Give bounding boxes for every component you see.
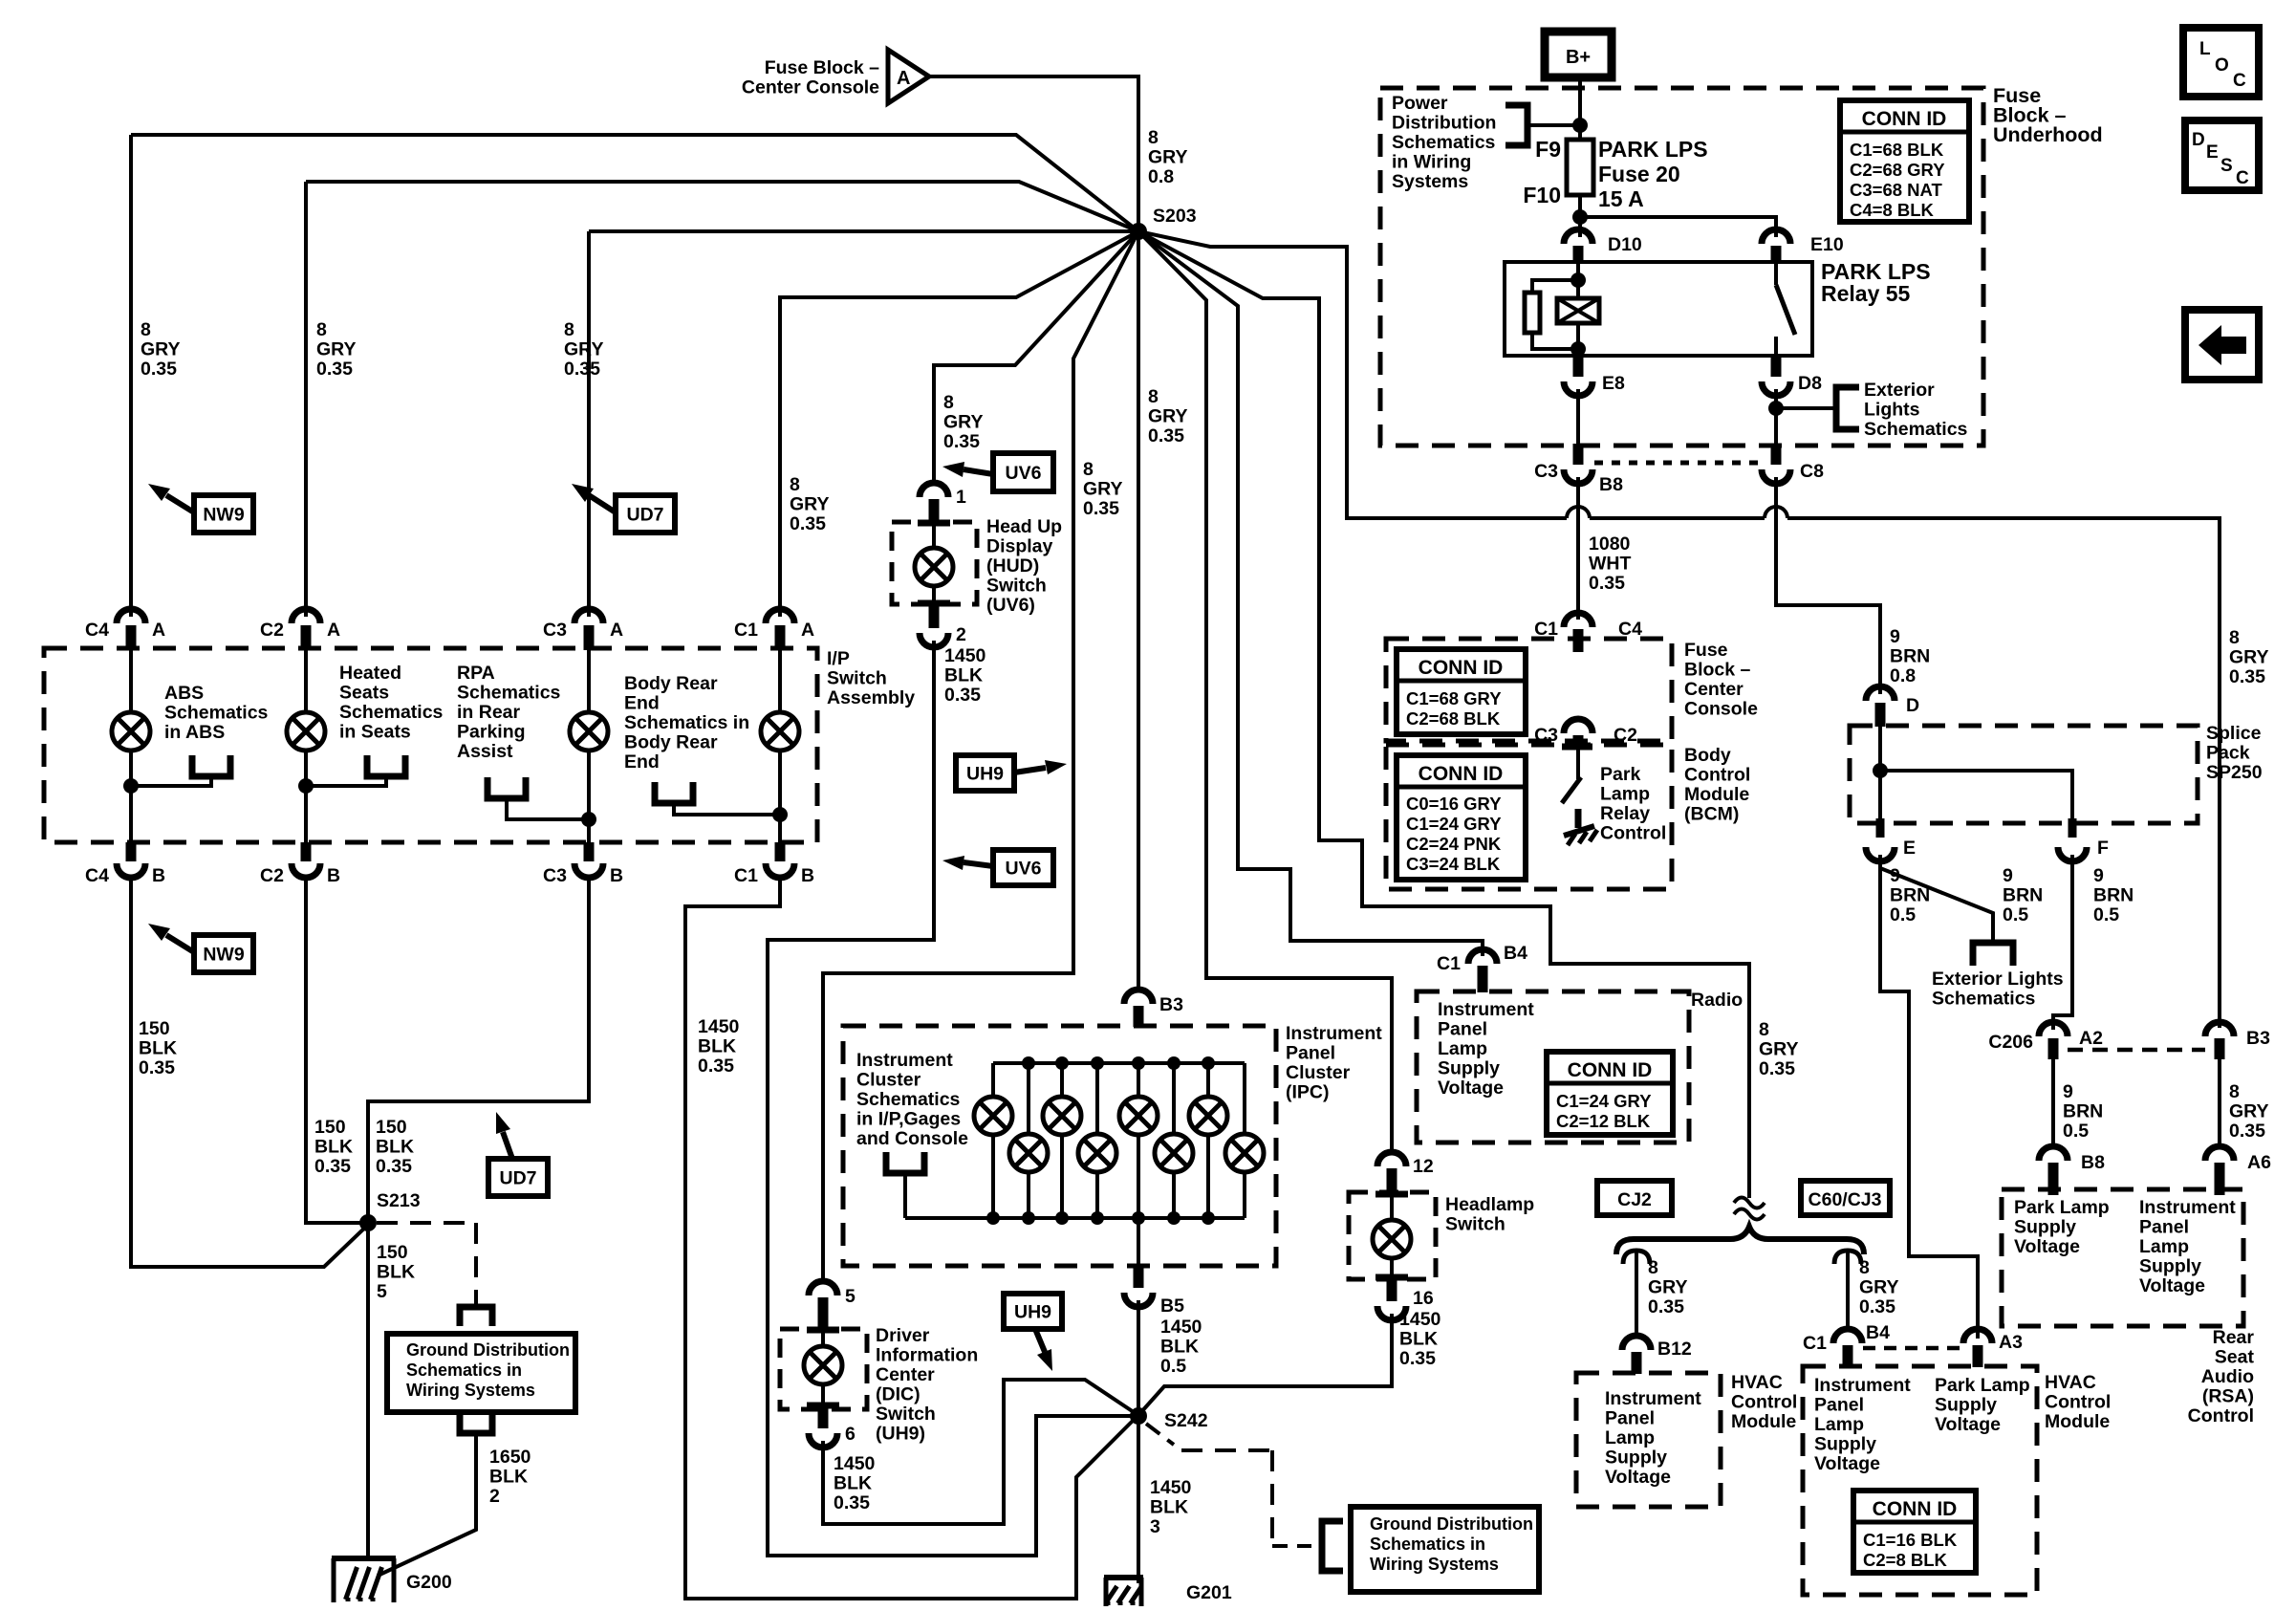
svg-text:CONN ID: CONN ID	[1419, 763, 1504, 785]
reference arrow NW9 (lower)	[194, 935, 253, 972]
connector B3 (right)	[2205, 1022, 2234, 1036]
svg-text:C: C	[2233, 71, 2246, 91]
wire: S213 down to G200	[366, 1223, 370, 1560]
CONN ID table (underhood)	[1840, 100, 1969, 222]
CONN ID table (center console)	[1397, 649, 1526, 734]
svg-text:C4: C4	[85, 620, 109, 641]
dashed branch S213 to ground distribution	[377, 1221, 476, 1225]
ground G200	[332, 1556, 396, 1561]
lamp C1 illumination	[778, 650, 782, 712]
svg-text:C1=16 BLKC2=8 BLK: C1=16 BLKC2=8 BLK	[1863, 1530, 1958, 1570]
connector F	[2069, 818, 2077, 838]
svg-text:B: B	[327, 865, 340, 886]
svg-text:E8: E8	[1602, 373, 1625, 394]
svg-text:1: 1	[956, 487, 966, 508]
relay coil	[1557, 298, 1599, 323]
branch to Seats schematics	[367, 755, 405, 776]
BCM dashed box	[1386, 745, 1672, 889]
wire: B5 to S242	[1137, 1300, 1140, 1414]
branch to instrument cluster schematics	[886, 1152, 924, 1173]
connector B5 (IPC)	[1134, 1266, 1144, 1288]
connector C2/B	[301, 842, 312, 861]
IPC lamp column x=1191	[1137, 1063, 1140, 1097]
lamp headlamp switch	[1390, 1196, 1394, 1220]
svg-text:A: A	[897, 68, 910, 89]
svg-text:6: 6	[845, 1424, 856, 1445]
connector D8	[1771, 356, 1782, 377]
svg-text:A6: A6	[2247, 1152, 2271, 1173]
relay coil branch wiring	[1576, 264, 1580, 356]
svg-text:UH9: UH9	[1014, 1302, 1051, 1323]
wire: HUD return to S242	[768, 641, 1137, 1556]
svg-text:C4: C4	[85, 865, 109, 886]
svg-text:C: C	[2236, 168, 2249, 188]
wire: col C2 vertical	[304, 182, 308, 617]
RSA dashed box	[2002, 1189, 2243, 1326]
junction top rail x=1228	[1167, 1056, 1180, 1070]
connector C3/C2	[1564, 719, 1592, 733]
svg-text:UD7: UD7	[626, 505, 663, 526]
reference arrow UD7 (upper)	[616, 495, 675, 533]
svg-text:C1: C1	[734, 620, 758, 641]
svg-text:C60/CJ3: C60/CJ3	[1809, 1189, 1882, 1210]
branch to power distribution schematics	[1505, 105, 1527, 145]
relay box PARK LPS Relay 55	[1505, 262, 1812, 356]
HUD contact bar bottom	[918, 600, 950, 607]
splice S242	[1130, 1407, 1147, 1425]
wire: C8 down to splice pack D	[1776, 477, 1880, 694]
fuse F9/F10 PARK LPS Fuse 20 15A	[1567, 140, 1593, 195]
svg-text:C2: C2	[260, 865, 284, 886]
svg-text:C1=68 BLKC2=68 GRYC3=68 NATC4=: C1=68 BLKC2=68 GRYC3=68 NATC4=8 BLK	[1850, 140, 1945, 220]
LOC legend box	[2183, 28, 2259, 97]
svg-text:B: B	[610, 865, 623, 886]
harness brace CJ2 / C60-CJ3	[1616, 1227, 1864, 1254]
svg-text:C3: C3	[1534, 461, 1558, 482]
dashed link B4 to A3	[1863, 1346, 1963, 1351]
wire: C3/B return to S213	[368, 878, 589, 1221]
wire: F to A2	[2053, 855, 2072, 1030]
svg-text:A3: A3	[1999, 1332, 2023, 1353]
wire: C2/B return to S213	[306, 878, 366, 1223]
junction top rail x=1191	[1132, 1056, 1145, 1070]
I/P switch assembly dashed box	[44, 648, 817, 842]
wire: triangle A to S203 bus	[929, 76, 1138, 233]
IPC lamp column x=1228	[1172, 1063, 1176, 1134]
connector E10	[1762, 229, 1790, 244]
branch E to exterior lights	[1880, 868, 1993, 943]
DIC contact bar top	[807, 1327, 839, 1334]
wire: S203 to C60/CJ3 harness column	[1138, 231, 1749, 1198]
connector C1/B4 (radio)	[1468, 949, 1497, 964]
lamp C4 illumination	[129, 650, 133, 712]
connector C206/A2	[2039, 1022, 2068, 1036]
branch to RPA schematics	[487, 777, 526, 798]
wire break symbol	[1734, 1198, 1765, 1208]
svg-text:C3: C3	[543, 865, 567, 886]
svg-text:12: 12	[1413, 1156, 1434, 1177]
dashed link A2 to B3	[2068, 1048, 2205, 1053]
svg-text:D10: D10	[1608, 234, 1642, 255]
svg-text:CONN ID: CONN ID	[1873, 1498, 1958, 1520]
svg-text:B5: B5	[1160, 1295, 1184, 1317]
svg-text:C8: C8	[1800, 461, 1824, 482]
back arrow box	[2185, 310, 2259, 380]
dashed branch S242 to ground distribution box	[1146, 1424, 1174, 1445]
svg-text:B: B	[801, 865, 814, 886]
wire: S203 to I/P switch C1 column	[780, 231, 1138, 617]
junction bottom rail x=1039	[986, 1211, 1000, 1225]
svg-text:B12: B12	[1657, 1339, 1692, 1360]
fuse block underhood dashed box	[1380, 88, 1983, 446]
CONN ID table (HVAC)	[1853, 1491, 1976, 1573]
HVAC control module box 2	[1803, 1366, 2037, 1595]
IPC dashed box	[843, 1026, 1276, 1266]
wire: B8 down to C1/C4	[1576, 477, 1580, 620]
DIC contact bar bottom	[807, 1403, 839, 1409]
branch to exterior lights schematics (D8)	[1768, 401, 1784, 416]
svg-text:S242: S242	[1164, 1410, 1208, 1431]
connector A3	[1963, 1329, 1992, 1343]
IPC lamp column x=1076	[1027, 1063, 1030, 1134]
ground distribution schematics box (left)	[387, 1334, 575, 1412]
svg-text:A: A	[327, 620, 340, 641]
svg-text:2: 2	[956, 624, 966, 645]
splice pack internal wiring	[1878, 727, 1882, 818]
svg-text:A: A	[610, 620, 623, 641]
ground G201	[1104, 1575, 1143, 1580]
junction bottom rail x=1076	[1022, 1211, 1035, 1225]
drop to B12	[1623, 1251, 1636, 1264]
wire: B3 to A6	[2218, 1059, 2221, 1147]
HUD switch dashed box	[892, 522, 977, 604]
lamp C3 illumination	[587, 650, 591, 712]
connector 12	[1377, 1152, 1406, 1166]
IPC lamp ladder bottom rail	[905, 1216, 1245, 1220]
HUD contact bar top	[918, 520, 950, 527]
wire: S242 to G201	[1137, 1416, 1140, 1583]
svg-text:C2: C2	[260, 620, 284, 641]
junction top rail x=1148	[1091, 1056, 1104, 1070]
svg-text:G201: G201	[1186, 1582, 1232, 1603]
svg-text:D: D	[1906, 695, 1919, 716]
connector C1/B4 (HVAC)	[1833, 1329, 1862, 1343]
connector C4/A	[117, 609, 145, 623]
IPC lamp column x=1039	[991, 1063, 995, 1097]
connector C1/C4	[1564, 613, 1592, 627]
wire: C4/B return to S213	[131, 878, 368, 1267]
IPC lamp ladder top rail	[993, 1061, 1245, 1065]
dotted connector line C3/B8 to C8	[1594, 461, 1763, 466]
svg-text:C1=24 GRYC2=12 BLK: C1=24 GRYC2=12 BLK	[1556, 1091, 1652, 1131]
connector C3/B8	[1573, 444, 1584, 465]
DIC switch dashed box	[780, 1329, 867, 1409]
svg-text:CONN ID: CONN ID	[1419, 657, 1504, 679]
wire: A2 to B8	[2051, 1059, 2055, 1147]
wire: S203 to headlamp switch column	[1138, 231, 1392, 1153]
svg-text:E: E	[1903, 838, 1916, 859]
svg-text:B3: B3	[1159, 994, 1183, 1015]
wire: S203 horizontal to col C3	[589, 229, 1138, 233]
svg-text:B4: B4	[1866, 1322, 1890, 1343]
svg-text:A: A	[152, 620, 165, 641]
off-page connector A (Fuse Block - Center Console)	[888, 50, 929, 103]
connector 6 (DIC)	[818, 1406, 829, 1428]
svg-text:C206: C206	[1988, 1032, 2033, 1053]
park lamp relay control switch	[1562, 744, 1592, 751]
connector C8	[1771, 444, 1782, 465]
svg-text:S203: S203	[1153, 206, 1197, 227]
svg-text:F: F	[2097, 838, 2109, 859]
svg-text:D: D	[2192, 130, 2205, 150]
DESC legend box	[2185, 120, 2259, 190]
connector 2 (HUD)	[929, 604, 940, 628]
wire: IPC bottom rail to B5	[1137, 1218, 1140, 1268]
battery feed B+	[1545, 32, 1612, 77]
reference arrow UH9 (upper)	[956, 755, 1014, 791]
svg-text:O: O	[2215, 55, 2229, 76]
svg-text:CONN ID: CONN ID	[1568, 1059, 1653, 1081]
svg-text:UV6: UV6	[1006, 859, 1042, 880]
connector A6 (RSA)	[2205, 1146, 2234, 1161]
branch to ABS schematics	[192, 755, 230, 776]
wire: DIC return to S242	[823, 1380, 1137, 1524]
svg-text:5: 5	[845, 1286, 856, 1307]
wire: S203 up-left diagonal 2 + horizontal to col C2	[306, 182, 1138, 231]
svg-text:E10: E10	[1810, 234, 1844, 255]
svg-text:B: B	[152, 865, 165, 886]
connector C3/A	[574, 609, 603, 623]
IPC lamp column x=1148	[1095, 1063, 1099, 1134]
reference arrow NW9 (upper)	[194, 495, 253, 533]
splice pack SP250 dashed box	[1850, 726, 2198, 823]
svg-text:S213: S213	[377, 1190, 421, 1211]
connector E	[1876, 818, 1885, 838]
connector D (splice pack)	[1866, 686, 1895, 701]
connector B8 (RSA)	[2039, 1146, 2068, 1161]
wire: col C3 vertical	[587, 231, 591, 617]
IPC lamp column x=1111	[1060, 1063, 1064, 1097]
connector B12	[1622, 1336, 1651, 1350]
svg-text:B3: B3	[2246, 1028, 2270, 1049]
wire: D8 down to C8	[1774, 389, 1778, 444]
svg-text:Radio: Radio	[1691, 990, 1743, 1011]
connector 5 (DIC)	[809, 1281, 837, 1295]
CJ2 label box	[1597, 1181, 1672, 1215]
reference arrow UV6 (lower)	[993, 850, 1053, 885]
connector E8	[1573, 356, 1584, 377]
wire: C1/B return to S242	[685, 878, 1137, 1599]
connector C2/A	[292, 609, 320, 623]
wire: S203 to radio column	[1138, 231, 1483, 956]
fuse block center console dashed box	[1386, 639, 1672, 741]
wire: S203 up-left diagonal 1 + horizontal to col C4	[131, 135, 1138, 231]
wire: S203 main bus down to IPC B3	[1137, 231, 1140, 991]
branch below ground box	[460, 1414, 492, 1433]
svg-text:A: A	[801, 620, 814, 641]
svg-text:B4: B4	[1504, 943, 1527, 964]
svg-text:C1=68 GRYC2=68 BLK: C1=68 GRYC2=68 BLK	[1406, 688, 1502, 729]
svg-text:F10: F10	[1523, 183, 1561, 207]
HVAC control module box 1	[1576, 1373, 1721, 1507]
svg-text:1080WHT0.35: 1080WHT0.35	[1589, 533, 1631, 594]
wire: E to A3 (HVAC)	[1880, 855, 1978, 1339]
svg-text:C3: C3	[543, 620, 567, 641]
branch to Body Rear End schematics	[655, 782, 693, 803]
svg-text:G200: G200	[406, 1572, 452, 1593]
splice S203	[1130, 223, 1147, 240]
junction bottom rail x=1111	[1055, 1211, 1069, 1225]
svg-text:C1: C1	[1437, 953, 1461, 974]
svg-text:S: S	[2220, 156, 2233, 176]
reference arrow UV6 (upper)	[993, 453, 1053, 491]
connector D10	[1564, 229, 1592, 244]
IPC lamp column x=1302	[1243, 1063, 1246, 1134]
wire: E8 down to C3/B8	[1576, 389, 1580, 444]
wire: fuse to relay terminals	[1578, 195, 1582, 237]
connector C1/B	[775, 842, 786, 861]
svg-text:D8: D8	[1798, 373, 1822, 394]
connector 1 (HUD)	[920, 483, 948, 497]
headlamp contact bar bottom	[1375, 1274, 1408, 1281]
connector C3/B	[584, 842, 595, 861]
svg-text:L: L	[2199, 39, 2211, 59]
junction bottom rail x=1228	[1167, 1211, 1180, 1225]
CONN ID table (BCM)	[1397, 755, 1526, 880]
junction bottom rail x=1148	[1091, 1211, 1104, 1225]
lamp DIC switch	[821, 1332, 825, 1347]
headlamp contact bar top	[1375, 1191, 1408, 1198]
radio dashed box	[1417, 991, 1689, 1143]
svg-text:InstrumentClusterSchematicsin: InstrumentClusterSchematicsin I/P,Gagesa…	[856, 1050, 968, 1149]
wire: S203 to HUD switch column	[934, 231, 1138, 483]
svg-text:1450BLK0.35: 1450BLK0.35	[698, 1016, 740, 1077]
svg-text:C1: C1	[1803, 1333, 1827, 1354]
junction top rail x=1076	[1022, 1056, 1035, 1070]
svg-text:B+: B+	[1566, 47, 1591, 68]
svg-text:UH9: UH9	[966, 764, 1004, 785]
drop to B4	[1834, 1251, 1848, 1264]
junction top rail x=1264	[1202, 1056, 1215, 1070]
svg-text:UD7: UD7	[499, 1168, 536, 1189]
svg-text:16: 16	[1413, 1288, 1434, 1309]
connector B3 (IPC)	[1124, 990, 1153, 1004]
reference arrow UD7 (lower)	[488, 1159, 548, 1196]
svg-text:C1: C1	[734, 865, 758, 886]
C60/CJ3 label box	[1801, 1181, 1890, 1215]
lamp C2 illumination	[304, 650, 308, 712]
svg-text:1450BLK0.35: 1450BLK0.35	[1399, 1309, 1441, 1369]
svg-text:UV6: UV6	[1006, 463, 1042, 484]
svg-text:1450BLK0.35: 1450BLK0.35	[834, 1453, 876, 1513]
reference arrow UH9 (lower)	[1004, 1294, 1062, 1329]
CONN ID table (radio)	[1547, 1052, 1673, 1135]
junction top rail x=1111	[1055, 1056, 1069, 1070]
svg-text:B8: B8	[1599, 474, 1623, 495]
junction bottom rail x=1264	[1202, 1211, 1215, 1225]
wire: headlamp return to S242	[1140, 1314, 1392, 1413]
junction bottom rail x=1191	[1132, 1211, 1145, 1225]
headlamp switch dashed box	[1349, 1192, 1436, 1279]
wire: B+ to fuse	[1578, 77, 1582, 142]
svg-text:CONN ID: CONN ID	[1862, 108, 1947, 130]
lamp HUD switch	[932, 525, 936, 549]
svg-text:B8: B8	[2081, 1152, 2105, 1173]
IPC lamp column x=1264	[1206, 1063, 1210, 1097]
svg-text:C0=16 GRYC1=24 GRYC2=24 PNKC3=: C0=16 GRYC1=24 GRYC2=24 PNKC3=24 BLK	[1406, 794, 1502, 874]
svg-text:E: E	[2206, 142, 2219, 163]
svg-text:NW9: NW9	[203, 945, 244, 966]
wire: col C4 vertical	[129, 135, 133, 617]
svg-text:NW9: NW9	[203, 505, 244, 526]
svg-text:F9: F9	[1535, 137, 1561, 162]
splice S213	[359, 1214, 377, 1231]
wire: S203 to far-right column (fuse block underhood area)	[1138, 231, 1567, 518]
BCM ground	[1575, 809, 1582, 828]
connector C1/A	[766, 609, 794, 623]
connector 16	[1387, 1279, 1397, 1301]
wire: S203 to UH9/DIC column	[823, 231, 1138, 1283]
ground distribution schematics box (right)	[1351, 1507, 1539, 1592]
connector C4/B	[126, 842, 137, 861]
svg-text:A2: A2	[2079, 1028, 2103, 1049]
svg-text:1450BLK0.35: 1450BLK0.35	[944, 645, 986, 706]
svg-text:CJ2: CJ2	[1617, 1189, 1652, 1210]
relay switch	[1774, 264, 1778, 285]
